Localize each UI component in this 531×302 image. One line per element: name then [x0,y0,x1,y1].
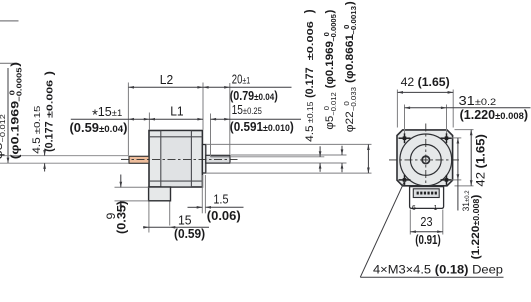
svg-text:(0.35): (0.35) [115,201,129,234]
connector pins [417,192,437,195]
mounting hole top-left [399,133,411,143]
svg-text:±0.15: ±0.15 [32,105,42,134]
svg-text:31: 31 [459,94,475,108]
label (0.06) [207,208,241,223]
svg-text:±0.008: ±0.008 [495,111,524,122]
svg-text:−0.0005: −0.0005 [14,67,23,102]
svg-text:(1.220: (1.220 [471,226,482,260]
svg-text:(φ0.1969: (φ0.1969 [8,101,21,159]
mounting hole bottom-left [399,175,411,185]
connector housing side view [149,187,171,201]
svg-text:): ) [290,120,294,135]
label (1.220±0.008) top [460,108,528,122]
svg-text:(0.177: (0.177 [43,121,55,152]
side view centerline [121,158,239,160]
dimension 42 right [455,129,474,131]
svg-text:): ) [524,108,528,122]
svg-text:42: 42 [474,168,487,186]
svg-text:±0.008: ±0.008 [472,198,481,225]
motor body side view [149,131,202,188]
dimension 23 [409,210,411,235]
svg-text:): ) [302,9,316,13]
label 42 (1.65) right rotated [474,134,487,186]
left clipped phi5 dimension line [7,68,9,163]
svg-text:−0.033: −0.033 [349,87,357,111]
dimension 31 right [451,137,462,139]
label 15 connector [178,213,192,227]
dimension 15±0.25 line [211,118,302,120]
dimension L2 line [128,86,203,88]
extension line shaft flat right [231,156,324,158]
svg-text:(1.220: (1.220 [460,108,496,122]
extension line pilot top right [206,143,372,145]
svg-text:31: 31 [461,202,471,212]
svg-text:15: 15 [98,105,112,119]
dimension rear 4.5 line [44,150,46,156]
svg-text:(0.91): (0.91) [415,234,441,248]
label (1.220±0.008) right rotated [471,194,482,259]
svg-text:±0.006: ±0.006 [44,79,54,117]
svg-text:±0.2: ±0.2 [475,97,497,107]
svg-text:±0.15: ±0.15 [305,101,315,123]
extension line flat start [210,114,212,157]
label 15±0.25 [232,104,262,117]
label (phi0.1969) rear rotated [7,62,23,159]
dimension rear 15 line [71,118,155,120]
label 4.5±0.15 rear rotated [31,105,43,154]
svg-text:42: 42 [401,75,418,89]
svg-text:(0.06): (0.06) [207,208,241,223]
callout leader [360,180,405,277]
svg-text:15: 15 [178,213,192,227]
front view shaft circle [422,156,429,163]
svg-text:(0.591: (0.591 [230,120,263,135]
svg-text:4.5: 4.5 [304,125,316,142]
svg-text:4×M3×4.5: 4×M3×4.5 [373,263,435,277]
dimension 1.5 pilot [201,175,203,213]
svg-text:Deep: Deep [469,263,503,277]
svg-text:L1: L1 [170,104,183,118]
front view vertical centerline [425,124,427,206]
pin label 1 [434,205,438,212]
extension line rear shaft tip [127,83,129,156]
svg-text:): ) [123,120,127,135]
label 20±1 [232,73,251,87]
front connector outline [410,187,444,209]
front shaft side view [206,155,230,163]
dimension 20 line [203,86,292,88]
extension line shaft tip [229,83,231,155]
left crop line a [0,20,19,22]
svg-text:±1: ±1 [112,108,122,119]
svg-text:φ5: φ5 [0,143,5,160]
label 31±0.2 right rotated [461,190,471,212]
mounting hole top-right [441,133,453,143]
dimension 15 connector width [148,202,150,233]
svg-text:(1.65): (1.65) [474,134,487,168]
svg-text:−0.0013: −0.0013 [349,6,357,35]
svg-text:(0.177: (0.177 [304,67,316,98]
svg-text:6: 6 [412,205,416,212]
svg-text:±0.04: ±0.04 [254,91,274,102]
label 31±0.2 top [459,94,497,108]
label phi5 tolerance rotated [322,9,338,129]
svg-text:1.5: 1.5 [213,192,228,207]
extension line rear shaft top left [0,155,129,157]
dimension 31 top [404,105,406,134]
label (0.35) rotated [115,201,129,234]
svg-text:±0.25: ±0.25 [243,105,262,116]
svg-text:(φ0.8661: (φ0.8661 [345,34,356,86]
svg-text:15: 15 [232,104,243,117]
label 4xM3x4.5 (0.18) Deep [373,263,503,277]
dimension 4.5 flat line [319,146,321,157]
mounting hole bottom-right [441,175,453,185]
svg-text:20: 20 [232,73,243,87]
extension line body left face [148,113,150,130]
label (0.59±0.04) [69,120,127,135]
pilot boss side view [202,145,205,174]
svg-text:±0.006: ±0.006 [305,21,315,61]
label (0.79±0.04) [230,88,278,103]
svg-text:): ) [324,9,335,13]
dimension L1 line [149,118,203,120]
pin label 6 [412,205,416,212]
dimension 9 connector height [115,186,149,188]
svg-text:(0.59: (0.59 [69,120,98,135]
svg-text:(0.79: (0.79 [230,88,255,103]
svg-text:(0.59): (0.59) [174,227,205,241]
svg-text:±0.010: ±0.010 [263,123,290,133]
dimension 42 top [396,90,398,128]
front view outer circle [400,134,452,186]
label 1.5 [213,192,228,207]
svg-text:): ) [471,194,482,198]
svg-text:): ) [274,88,278,103]
svg-text:(φ0.1969: (φ0.1969 [324,41,335,92]
label (0.91) [415,234,441,248]
extension line pilot bottom right [206,172,372,174]
label *15±1 [92,105,122,123]
svg-text:4.5: 4.5 [31,137,43,154]
label (0.177±0.006) rear rotated [43,71,55,152]
extension line shaft top right [231,154,347,156]
label L2 [160,73,173,87]
label phi22 tolerance rotated [342,1,357,132]
svg-text:): ) [8,62,21,67]
dimension phi22 line [367,144,369,173]
label (0.591±0.010) [230,120,294,135]
svg-text:(1.65): (1.65) [418,75,450,89]
svg-text:φ22: φ22 [345,111,356,132]
front view flange square [397,130,453,186]
svg-text:±1: ±1 [242,74,250,85]
svg-text:φ5: φ5 [324,116,335,130]
svg-text:L2: L2 [160,73,173,87]
extension line body right face [202,83,204,130]
rear shaft double shaft side view [129,156,149,163]
svg-text:(0.18): (0.18) [435,263,469,277]
front view pilot circle [410,145,441,176]
svg-text:): ) [345,1,356,5]
label L1 [170,104,183,118]
extension line rear shaft bottom left [0,162,129,164]
label phi5 rear clipped rotated [0,114,7,160]
label 23 [420,214,432,229]
svg-text:1: 1 [434,205,438,212]
label (0.59) connector [174,227,205,241]
svg-text:23: 23 [420,214,432,229]
dimension phi5 line [341,146,343,155]
extension line shaft bottom right [231,162,347,164]
svg-text:−0.0005: −0.0005 [329,14,338,42]
svg-text:−0.012: −0.012 [329,92,338,115]
svg-text:): ) [43,71,55,75]
left crop line b [0,62,17,64]
svg-text:−0.012: −0.012 [0,114,7,143]
label 42 (1.65) top [401,75,450,89]
label 9 rotated [104,213,118,220]
label 4.5 (0.177) rotated [302,9,316,142]
svg-text:±0.04: ±0.04 [99,124,124,135]
front view horizontal centerline [389,159,462,161]
front connector socket [413,189,439,198]
